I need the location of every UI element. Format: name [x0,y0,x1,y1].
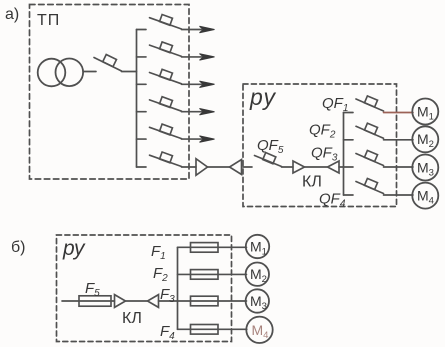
motor M4-b [246,317,272,343]
circuit breaker QF3 body [364,150,377,161]
feeder 1: wire stub [137,29,147,31]
motor M1-b [246,235,269,258]
feeder 4: arrow [200,109,215,115]
transformer T1 winding 1 [38,59,66,87]
fuse F5 [79,296,111,306]
wire QF1 to motor M1 [384,112,414,114]
motor feeder 3: wire stub [344,166,354,168]
cable KL-b mark (open triangle right) [115,295,126,308]
wire cable line KL [208,166,230,168]
feeder 3: wire out [182,83,203,85]
circuit breaker QF1 blade [356,99,384,111]
motor M2 [412,126,438,152]
enclosure box TP (dashed) [30,5,190,180]
feeder 1: breaker body [160,14,173,25]
svg-text:ру: ру [249,84,277,110]
circuit breaker QF5 blade [255,156,282,167]
fuse feeder 4: wire [178,328,247,330]
motor M4 [412,183,438,209]
feeder 2: wire stub [137,56,147,58]
wire QF2 to motor M2 [384,139,414,141]
wire cable KL-b [126,300,147,302]
svg-text:ТП: ТП [37,12,60,29]
svg-text:КЛ: КЛ [302,174,322,191]
feeder 3: wire stub [137,83,147,85]
wire cable to bus b [159,300,178,302]
feeder 4: wire stub [137,111,147,113]
feeder 5: breaker body [160,124,173,135]
feeder 1: breaker blade [150,18,182,29]
feeder 1: arrow [200,26,215,32]
motor feeder 4: wire stub [344,194,354,196]
circuit breaker QF main (blade) [94,58,122,72]
motor feeder 1: wire stub [344,112,354,114]
feeder 6: breaker body [160,152,173,163]
circuit breaker QF5 body [263,153,276,164]
feeder 4: breaker blade [150,100,182,111]
fuse F4 [191,325,219,335]
feeder 6: wire out [182,166,197,168]
svg-text:КЛ: КЛ [122,310,142,327]
circuit breaker QF main (body) [103,55,117,67]
feeder 2: arrow [200,54,215,60]
circuit breaker QF4 blade [356,182,384,194]
motor feeder 2: wire stub [344,139,354,141]
wire transformer to main breaker [83,71,96,73]
bus RU-a [343,113,345,196]
feeder 4: wire out [182,111,203,113]
cable KL-b mark (open triangle left) [148,295,159,308]
feeder 5: wire stub [137,138,147,140]
wire main breaker to bus [122,71,137,73]
fuse F3 [191,296,219,306]
feeder 3: arrow [200,81,215,87]
feeder 3: breaker blade [150,73,182,84]
circuit breaker QF2 body [364,123,377,134]
feeder 5: arrow [200,136,215,142]
fuse feeder 3: wire [178,300,247,302]
bus RU-b [177,247,179,329]
svg-text:а): а) [5,6,19,23]
wire QF3 to motor M3 [384,166,414,168]
cable KL mark (open triangle left) [328,161,340,173]
motor M1 [412,99,438,125]
svg-text:б): б) [11,239,26,256]
fuse F2 [191,270,219,280]
svg-text:ру: ру [62,237,86,260]
cable KL sending-end symbol (open triangle) [196,159,208,176]
feeder 5: wire out [182,138,203,140]
feeder 3: breaker body [160,69,173,80]
wire QF4 to motor M4 [384,194,414,196]
feeder 1: wire out [182,29,203,31]
feeder 2: wire out [182,56,203,58]
feeder 6: breaker blade [150,155,182,166]
wire QF5 to cable [282,166,294,168]
motor M3 [412,155,438,181]
fuse feeder 2: wire [178,273,247,275]
feeder 6: wire stub [137,166,147,168]
motor M2-b [246,263,269,286]
feeder 5: breaker blade [150,127,182,138]
wire cable to RU bus [339,166,344,168]
cable KL mark (open triangle right) [293,161,305,173]
circuit breaker QF3 blade [356,154,384,166]
enclosure box RU-a (dashed) [243,84,397,207]
feeder 4: breaker body [160,97,173,108]
fuse feeder 1: wire [178,246,247,248]
bus TP [136,30,138,168]
circuit breaker QF4 body [364,178,377,189]
feeder 2: breaker blade [150,45,182,56]
wire input b [62,300,115,302]
motor M3-b [246,289,269,312]
fuse F1 [191,243,219,253]
feeder 2: breaker body [160,42,173,53]
wire cable KL inside RU [305,166,327,168]
circuit breaker QF1 body [364,96,377,107]
transformer T1 winding 2 [56,59,84,87]
cable KL receiving-end symbol (open triangle) [230,160,242,175]
enclosure box RU-b (dashed) [57,235,232,342]
circuit breaker QF2 blade [356,126,384,138]
wire RU-a input [243,166,252,168]
